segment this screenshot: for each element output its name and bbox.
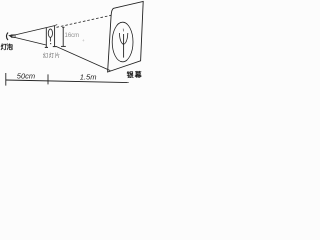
slide figure bbox=[48, 29, 52, 37]
slide frame top edge bbox=[46, 26, 54, 28]
slide figure stem bbox=[49, 38, 51, 42]
background bbox=[0, 0, 145, 92]
slide frame right edge bbox=[54, 26, 56, 47]
lamp body bbox=[12, 35, 16, 38]
svg-text:16cm: 16cm bbox=[65, 33, 80, 39]
slide frame left edge bbox=[45, 27, 47, 47]
lamp bbox=[8, 35, 11, 38]
screen image ellipse bbox=[112, 22, 133, 62]
lens foot bbox=[61, 45, 66, 47]
svg-text:50cm: 50cm bbox=[17, 72, 35, 81]
slide frame top tick bbox=[55, 25, 58, 26]
psi stem bbox=[123, 34, 125, 58]
lens line bbox=[62, 27, 64, 46]
concave mirror bbox=[6, 33, 8, 41]
svg-text:1.5m: 1.5m bbox=[80, 72, 97, 81]
ray upper source to slide bbox=[11, 28, 47, 36]
psi top tick bbox=[122, 29, 124, 32]
dimension line bbox=[6, 80, 130, 83]
slide frame foot right bbox=[53, 46, 57, 48]
svg-text:+: + bbox=[82, 38, 85, 43]
svg-text:灯泡: 灯泡 bbox=[1, 42, 14, 51]
screen bbox=[108, 1, 144, 72]
solid ray lens to screen bottom bbox=[56, 46, 110, 70]
svg-text:幻灯片: 幻灯片 bbox=[43, 52, 61, 60]
psi cup bbox=[119, 33, 127, 44]
left tick bbox=[5, 73, 7, 86]
lens top serif bbox=[62, 26, 65, 28]
dashed ray lens to screen top bbox=[57, 15, 112, 27]
mid tick bbox=[47, 74, 49, 84]
slide frame foot left bbox=[45, 46, 48, 48]
svg-text:银幕: 银幕 bbox=[127, 70, 143, 79]
slide figure dot bbox=[50, 43, 51, 44]
ray lower source to slide bbox=[11, 36, 47, 45]
